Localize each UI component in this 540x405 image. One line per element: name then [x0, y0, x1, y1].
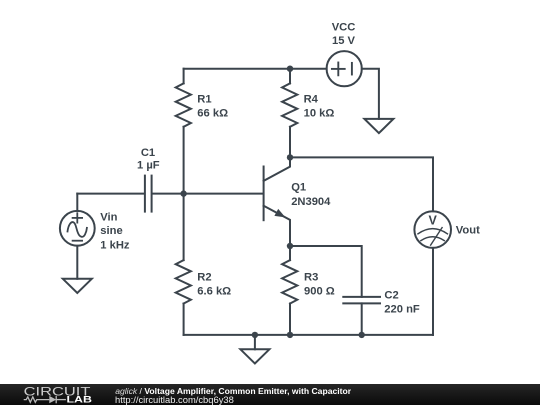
svg-text:R3: R3 [304, 272, 318, 284]
wire Vin to ground [76, 246, 78, 279]
svg-text:Vout: Vout [456, 225, 480, 237]
node bottom R3 [287, 332, 293, 338]
voltage source Vin [60, 211, 95, 246]
svg-text:10 kΩ: 10 kΩ [304, 108, 335, 120]
node top rail / R4 [287, 66, 293, 72]
svg-text:66 kΩ: 66 kΩ [197, 108, 228, 120]
node bottom ground tap [252, 332, 258, 338]
svg-text:VCC: VCC [332, 22, 356, 34]
wire Vin vertical [76, 194, 78, 211]
svg-text:15 V: 15 V [332, 35, 356, 47]
ground (Vin) [63, 279, 92, 293]
svg-text:R2: R2 [197, 272, 211, 284]
svg-text:R1: R1 [197, 94, 211, 106]
voltage source VCC [327, 51, 362, 86]
wire ground tap [254, 335, 256, 349]
wire Vout to bottom rail [432, 248, 434, 335]
svg-text:LAB: LAB [67, 395, 93, 405]
wire bottom rail [184, 334, 433, 336]
ground (bottom rail) [240, 349, 269, 363]
wire C2 bottom [361, 303, 363, 335]
wire C1 to base node [153, 193, 263, 195]
node base [180, 190, 186, 196]
transistor Q1 emitter arrow [274, 209, 285, 218]
resistor R1 [176, 69, 191, 194]
svg-text:1 µF: 1 µF [137, 159, 160, 171]
resistor R3 [282, 246, 297, 335]
svg-text:1 kHz: 1 kHz [100, 239, 130, 251]
svg-text:V: V [429, 214, 438, 228]
svg-text:http://circuitlab.com/cbq6y38: http://circuitlab.com/cbq6y38 [115, 394, 234, 405]
svg-text:C2: C2 [384, 289, 398, 301]
node collector [287, 154, 293, 160]
wire VCC to ground [362, 69, 379, 119]
node emitter [287, 243, 293, 249]
svg-text:Q1: Q1 [291, 181, 306, 193]
resistor R4 [282, 69, 297, 158]
svg-text:C1: C1 [141, 147, 155, 159]
transistor Q1 [264, 157, 290, 246]
capacitor C2 [343, 297, 380, 304]
svg-text:220 nF: 220 nF [384, 303, 420, 315]
resistor R2 [176, 194, 191, 335]
svg-text:2N3904: 2N3904 [291, 196, 331, 208]
capacitor C1 [145, 176, 152, 212]
svg-text:900 Ω: 900 Ω [304, 285, 335, 297]
svg-text:R4: R4 [304, 94, 319, 106]
voltmeter Vout [414, 211, 451, 248]
wire collector node to Vout [290, 157, 433, 211]
wire Vin top to C1 [77, 193, 144, 195]
wire top rail [184, 68, 327, 70]
wire emitter node to C2 [290, 246, 362, 297]
node bottom C2 [359, 332, 365, 338]
ground (VCC) [364, 119, 393, 133]
svg-text:sine: sine [100, 225, 122, 237]
svg-text:Vin: Vin [100, 212, 117, 224]
svg-text:6.6 kΩ: 6.6 kΩ [197, 285, 231, 297]
CircuitLab logo: resistor+diode symbol [24, 396, 66, 403]
